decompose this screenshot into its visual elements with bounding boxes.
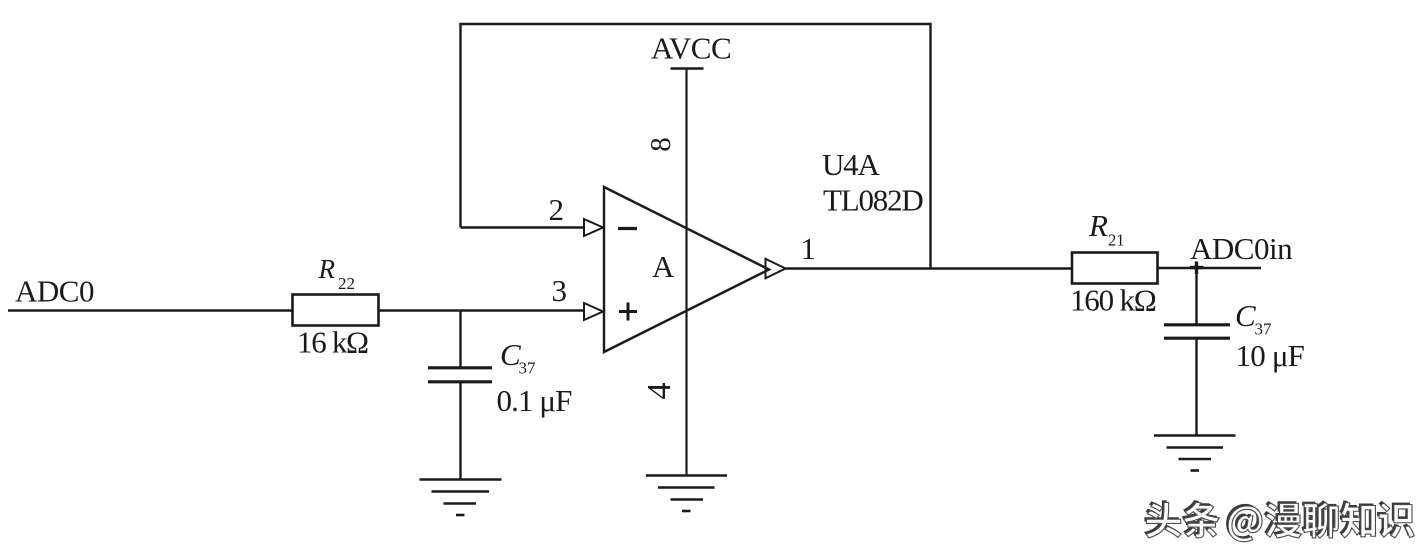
op-amp minus sign [618, 227, 637, 230]
svg-text:AVCC: AVCC [651, 31, 731, 66]
op-amp plus sign [619, 303, 637, 321]
wire op-amp output pin 1 [786, 267, 1073, 269]
svg-text:ADC0in: ADC0in [1190, 231, 1293, 266]
op-amp pin 3 input arrow [584, 303, 603, 320]
ground left (below C37) [420, 480, 502, 516]
svg-text:4: 4 [641, 383, 678, 400]
svg-text:8: 8 [645, 137, 677, 152]
resistor R22 [293, 295, 379, 326]
wire feedback loop from output to pin 2 [461, 24, 931, 269]
wire AVCC rail pin 8 to pin 4 [685, 69, 687, 476]
wire capacitor C37 lower leg [459, 382, 461, 479]
watermark 头条 @漫聊知识 [1144, 500, 1414, 542]
ground right (below C37 right) [1154, 436, 1236, 471]
op-amp pin 2 input arrow [584, 219, 603, 236]
svg-text:U4A: U4A [822, 147, 880, 182]
wire ADC0in node to capacitor C37 right [1195, 268, 1197, 324]
svg-text:1: 1 [801, 231, 817, 266]
op-amp U4A triangle [604, 187, 769, 352]
svg-text:2: 2 [549, 192, 565, 227]
capacitor C37 left plates [428, 368, 492, 382]
svg-text:TL082D: TL082D [823, 183, 923, 218]
svg-text:160 kΩ: 160 kΩ [1070, 283, 1156, 318]
svg-text:22: 22 [338, 274, 355, 293]
svg-text:10 μF: 10 μF [1236, 338, 1305, 373]
node ADC0in junction cross [1190, 262, 1204, 275]
svg-text:0.1 μF: 0.1 μF [497, 383, 573, 418]
svg-text:R: R [1088, 208, 1108, 243]
svg-text:R: R [318, 254, 336, 284]
wire op-amp pin 2 input [461, 226, 585, 228]
svg-text:37: 37 [1255, 320, 1273, 339]
ground center (op-amp pin 4) [646, 476, 727, 512]
svg-text:ADC0: ADC0 [15, 274, 94, 309]
power AVCC bar [671, 67, 704, 70]
wire R21 to ADC0in node [1158, 267, 1262, 269]
svg-text:C: C [1235, 298, 1256, 333]
svg-text:37: 37 [519, 359, 537, 378]
svg-text:21: 21 [1108, 231, 1125, 250]
op-amp output arrow [766, 259, 786, 279]
capacitor C37 right plates [1164, 325, 1230, 338]
wire node to capacitor C37 left leg [459, 311, 461, 367]
resistor R21 [1072, 253, 1158, 284]
wire R22 to op-amp pin 3 [379, 309, 585, 311]
wire ADC0 input [8, 309, 292, 311]
svg-text:3: 3 [552, 273, 568, 308]
svg-text:16 kΩ: 16 kΩ [297, 325, 368, 360]
svg-text:A: A [652, 249, 675, 284]
wire capacitor C37 right lower leg [1195, 339, 1197, 436]
